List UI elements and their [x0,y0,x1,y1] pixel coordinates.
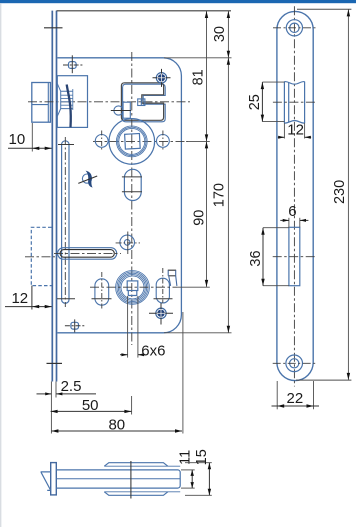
side cover upper line [104,465,180,467]
dim 12 strike extensions [284,123,304,138]
svg-text:36: 36 [248,250,264,266]
dim 50 arrows [51,410,132,413]
faceplate top break tick [44,27,63,29]
strike plate outline [277,11,313,380]
lever spring blue outline [123,84,166,122]
hub extension line to 81 dim [186,140,210,142]
hub right ear [157,135,170,148]
dim line 81-90 [206,11,208,287]
hub horizontal centerline [93,140,188,142]
svg-text:30: 30 [212,26,228,42]
dim 10 arrows [32,147,51,150]
deadbolt (retracted, dashed) [31,227,51,285]
faceplate back edge line [56,11,58,382]
hub ring circles [116,126,147,157]
strike plate vertical centerline [293,6,295,386]
latch bolt head [32,83,51,123]
dim line 30-170 [227,11,229,333]
latch housing bevel [57,84,73,117]
svg-text:12: 12 [11,290,28,307]
side bottom cover strip [104,492,168,496]
vertical guide slot [62,141,69,303]
latch cutout centerline [273,101,316,103]
dim 80 arrows [51,429,182,432]
bar centerline [54,252,121,254]
side latch tip [41,472,51,491]
screw post cross [116,232,140,255]
guide slot bottom tick [57,298,75,300]
dim 11 arrows [191,470,194,488]
spring slider block [138,99,145,106]
arrows column 81/90 [205,11,208,287]
lower hub coil spring [116,271,150,305]
dim 230 line [347,9,349,380]
dim 22 line [272,405,320,407]
arrows column 30/170 [227,11,230,333]
svg-text:12: 12 [287,121,304,138]
latch spring leaf [67,85,71,128]
dim 36 line [262,228,264,286]
detent pawl slash [78,176,97,183]
svg-text:81: 81 [190,69,206,85]
dim 10 extension [31,123,33,152]
detent pawl circle [82,174,91,183]
latch centerline [28,101,190,103]
dim 12 left line [5,306,52,308]
lower ear centerline left [101,272,103,310]
top extension line [57,10,232,12]
guide slot centerline [64,137,66,307]
stop pawl [168,270,177,286]
dim 2.5 extensions [51,382,56,434]
lock case outline [57,58,181,333]
top fixing screw [69,62,77,69]
dim 6 extensions [289,218,300,228]
dim 25 arrows [261,82,264,122]
hub outer circle [109,119,155,165]
lower hub horizontal centerline [90,286,177,288]
detent pawl lever fill [86,171,93,188]
svg-text:25: 25 [247,94,263,110]
left faint page edge [0,3,2,527]
lower hub extension to 90 dim [177,286,210,288]
svg-text:22: 22 [287,390,304,407]
deadbolt connecting bar outer [58,248,117,260]
guide slot top tick [58,144,74,146]
top screw hole [286,20,302,36]
dim 22 arrows [277,404,313,407]
dim 80 right extension [182,312,184,434]
dim 230 arrows [347,9,350,380]
lower ear tick left [92,298,112,300]
side top cover strip [104,463,168,467]
top hole centerline [273,27,316,29]
ear centerline left [101,131,103,151]
side case slab [56,470,180,488]
6x6 dim line and arrows [120,353,146,356]
dim 80 line [51,430,182,432]
keyhole slot [124,169,141,200]
hub left ear [95,135,108,148]
faceplate bottom break tick [47,362,63,364]
dim 25 line [261,82,263,122]
deadbolt box centerline [273,256,316,258]
upper filled screw [153,69,171,87]
svg-text:170: 170 [211,183,227,207]
side centerline [130,461,132,499]
dim 2.5 line [37,392,97,395]
lower hub square hole 6x6 [127,281,138,296]
svg-text:2.5: 2.5 [61,378,82,395]
dim 22 extensions [277,381,313,409]
deadbolt cutout box [289,227,300,285]
dim 36 extensions [263,228,289,286]
dim 50 right extension [131,396,133,415]
dim 36 arrows [261,228,264,286]
svg-text:80: 80 [108,416,125,433]
lower ear tick right [154,298,173,300]
spring clamp circle [114,106,123,115]
lower ear centerline right [162,268,164,303]
dim 15 extensions [185,463,212,496]
latch housing [57,76,87,128]
latch cutout [284,82,304,124]
svg-text:50: 50 [82,397,99,414]
dim 11 extensions [181,470,195,488]
dim 10 line [8,147,52,149]
deadbolt connecting bar inner [60,250,114,258]
dim 50 line [51,410,132,412]
bottom fixing screw cross [65,319,86,332]
svg-text:15: 15 [194,449,210,465]
dim 15 arrows [208,463,211,496]
spring clamp tick [111,110,131,112]
top blue border [0,0,356,3]
screw post circle [120,235,135,250]
side cover lower line [104,491,180,493]
dim 11 line [191,470,193,488]
hub square spindle hole [125,134,141,150]
6x6 extension lines [128,296,138,358]
bottom screw hole [286,355,303,372]
side faceplate bar [51,463,57,495]
lower hub left ear [95,279,109,305]
ear centerline right [162,131,164,151]
svg-text:6: 6 [288,203,296,220]
lever spring dark hook [121,83,163,121]
dim 12 left arrows [32,305,52,308]
case bottom extension [164,332,232,334]
lower filled screw [149,303,173,325]
keyhole tick upper [122,176,142,178]
dim 12 left extension [31,286,33,310]
dim 6 line [280,219,308,222]
hub vertical centerline [131,52,133,345]
top fixing screw cross [63,55,83,73]
svg-text:230: 230 [332,180,348,204]
bottom hole centerline [273,362,316,364]
dim 12 strike line [278,136,311,139]
dim 230 extensions [296,9,351,380]
dim 25 extensions [262,82,284,122]
svg-text:90: 90 [192,210,208,226]
bottom fixing screw [71,322,79,329]
svg-text:10: 10 [9,131,26,148]
dim 15 line [208,463,210,496]
side case mid line [56,478,180,480]
faceplate front edge line [51,11,53,382]
latch guide lines [61,89,73,110]
deadbolt centerline [25,256,55,258]
spring anchor block [123,102,130,118]
svg-text:6x6: 6x6 [141,342,165,359]
case top extension [164,57,232,59]
keyhole tick lower [122,191,142,193]
lower hub right ear [156,278,169,303]
